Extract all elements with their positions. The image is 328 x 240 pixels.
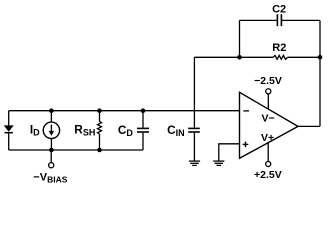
wire: current source bottom stem [50, 138, 52, 150]
wire: C2 loop left vertical [239, 20, 241, 57]
svg-text:−VBIAS: −VBIAS [33, 171, 67, 184]
wire: RSH bottom stem [99, 134, 101, 150]
svg-text:CIN: CIN [167, 123, 185, 138]
wire: feedback left vertical (from R2 rail down through rail to CIN) [193, 57, 195, 127]
wire: CD top stem [142, 111, 144, 128]
wire: -Vbias terminal stem [50, 150, 52, 163]
terminal: -VBIAS open circle [49, 163, 54, 168]
wire: R2 rail [194, 56, 273, 58]
svg-text:ID: ID [30, 122, 40, 137]
current source ID [43, 122, 59, 138]
wire: left vertical segment (photodiode branch) [8, 111, 10, 126]
wire: main input rail (inverting input net) [9, 110, 240, 112]
ground: non-inverting input ground symbol [213, 161, 224, 165]
wire: R2 rail right segment [288, 56, 320, 58]
capacitor C2 [277, 14, 281, 26]
junction: ID bottom node [49, 148, 54, 153]
pin: non-inverting input plus sign [243, 142, 249, 148]
terminal: +2.5V supply circle [266, 161, 271, 166]
terminal: -2.5V supply circle [266, 89, 271, 94]
capacitor CD [137, 128, 149, 132]
svg-text:C2: C2 [272, 3, 286, 15]
junction: ID top node [49, 108, 54, 113]
svg-text:R2: R2 [272, 42, 286, 54]
junction: CD top node [141, 108, 146, 113]
junction: feedback left node [237, 55, 242, 60]
junction: RSH top node [97, 108, 102, 113]
svg-text:CD: CD [118, 123, 134, 138]
junction: RSH bottom node [97, 148, 102, 153]
wire: C2 rail left segment [240, 19, 277, 21]
wire: V+ supply stem [267, 142, 269, 162]
photodiode D1 [4, 125, 14, 132]
wire: CIN ground stem [193, 133, 195, 161]
wire: C2 rail right segment [281, 19, 320, 21]
svg-text:−2.5V: −2.5V [254, 75, 282, 87]
pin: inverting input minus sign [243, 110, 249, 112]
resistor RSH zigzag [98, 121, 102, 134]
wire: V- supply stem [267, 94, 269, 109]
ground: CIN ground symbol [189, 161, 200, 165]
wire: non-inverting input wire [219, 144, 240, 161]
op-amp U1 triangle [240, 92, 299, 158]
wire: left vertical lower segment [8, 133, 10, 150]
svg-text:V−: V− [262, 113, 275, 125]
wire: right feedback vertical [319, 20, 321, 126]
resistor R2 zigzag [273, 55, 288, 59]
wire: current source top stem [50, 111, 52, 123]
svg-text:+2.5V: +2.5V [254, 169, 282, 181]
wire: CD bottom stem [142, 133, 144, 150]
wire: op-amp output [298, 125, 320, 127]
capacitor CIN [188, 128, 200, 132]
wire: RSH top stem [99, 111, 101, 122]
svg-text:RSH: RSH [74, 123, 95, 138]
svg-text:V+: V+ [261, 132, 274, 144]
wire: bottom rail (-Vbias net) [9, 149, 143, 151]
junction: feedback right node [318, 55, 323, 60]
